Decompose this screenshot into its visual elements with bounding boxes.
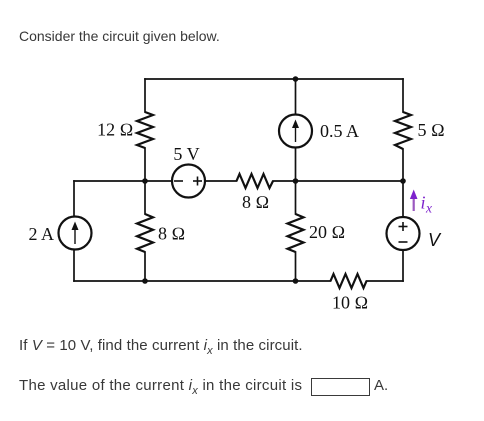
svg-text:5 Ω: 5 Ω bbox=[418, 120, 445, 140]
svg-text:x: x bbox=[425, 201, 432, 216]
svg-text:8 Ω: 8 Ω bbox=[242, 192, 269, 212]
svg-text:i: i bbox=[421, 193, 426, 213]
svg-text:10 Ω: 10 Ω bbox=[332, 293, 368, 313]
svg-text:12 Ω: 12 Ω bbox=[97, 120, 133, 140]
svg-text:8 Ω: 8 Ω bbox=[158, 224, 185, 244]
svg-text:0.5 A: 0.5 A bbox=[320, 121, 359, 141]
svg-text:5 V: 5 V bbox=[173, 144, 199, 164]
svg-text:V: V bbox=[428, 230, 442, 250]
svg-text:20 Ω: 20 Ω bbox=[309, 222, 345, 242]
svg-text:2 A: 2 A bbox=[29, 224, 55, 244]
